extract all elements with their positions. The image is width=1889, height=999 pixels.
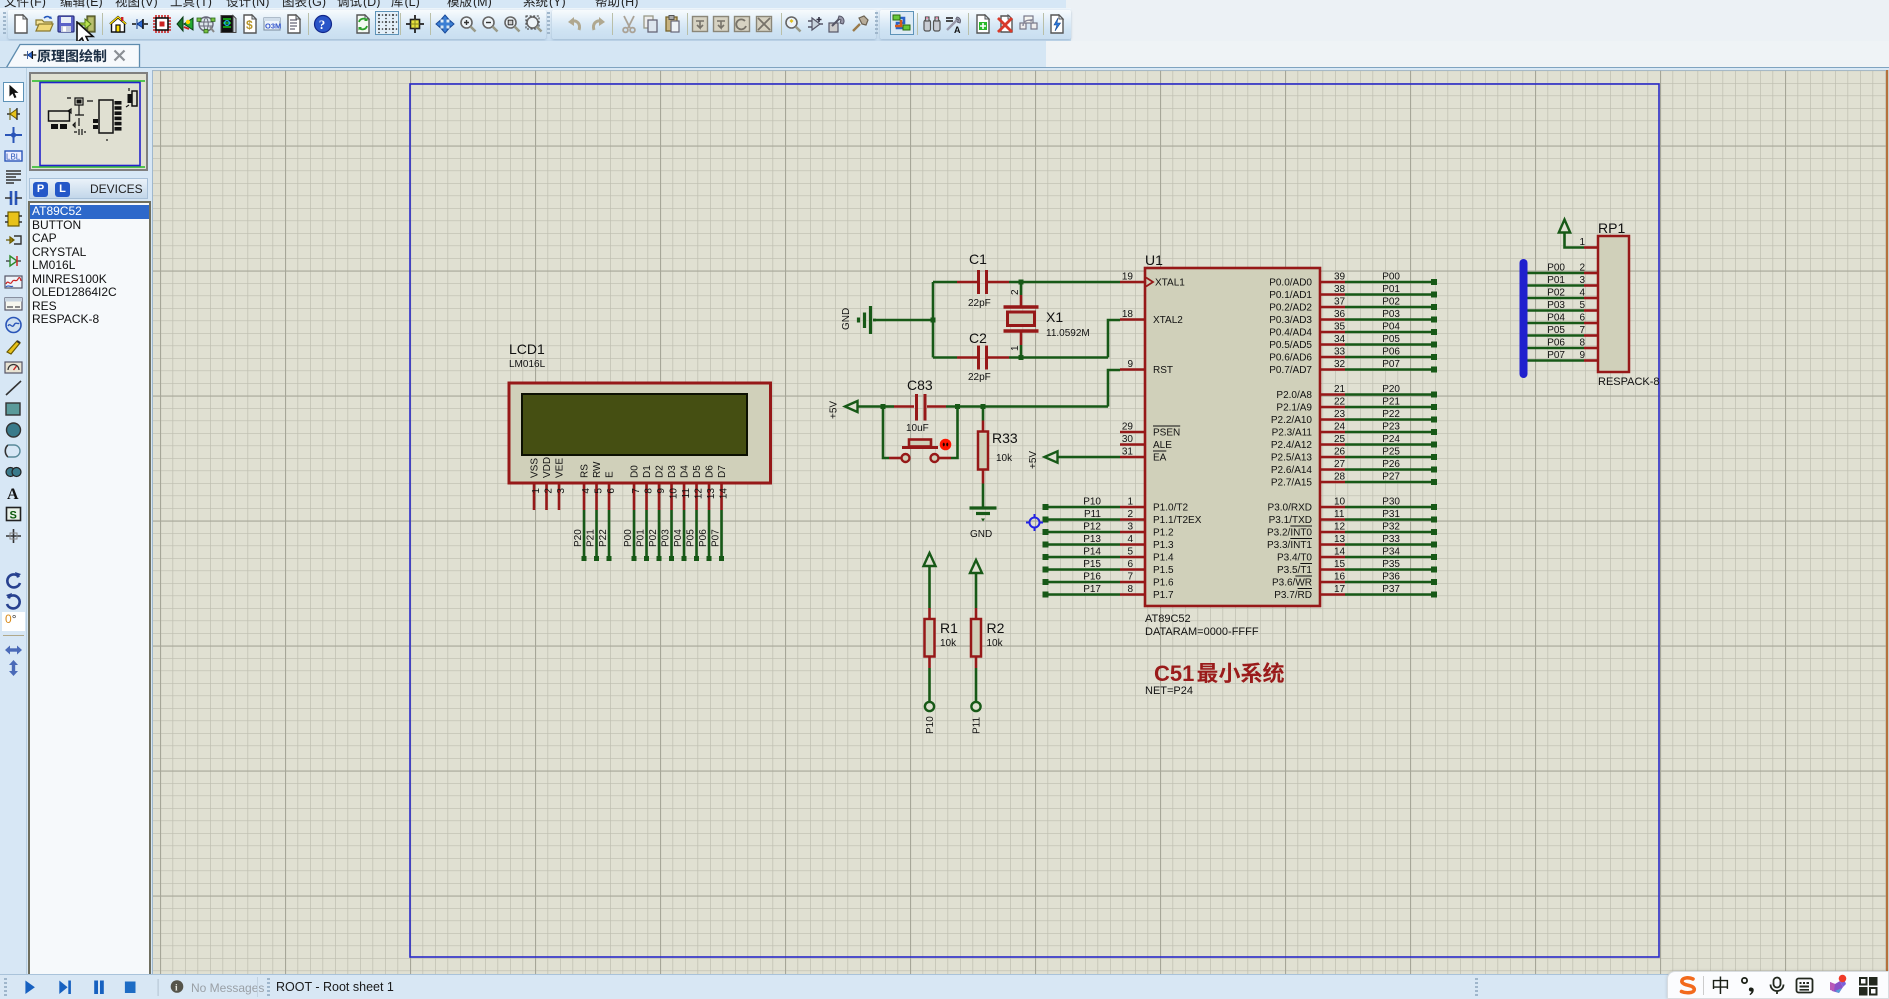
junction at (958,406.5) <box>955 404 960 409</box>
svg-text:22pF: 22pF <box>968 298 991 309</box>
svg-text:36: 36 <box>1334 309 1346 320</box>
svg-text:27: 27 <box>1334 459 1346 470</box>
svg-text:P0.2/AD2: P0.2/AD2 <box>1269 303 1312 314</box>
svg-text:P25: P25 <box>1382 447 1400 458</box>
svg-text:P05: P05 <box>686 529 697 547</box>
svg-text:P17: P17 <box>1083 584 1101 595</box>
svg-text:LBL: LBL <box>6 153 21 162</box>
svg-text:P12: P12 <box>1083 522 1101 533</box>
svg-text:LCD1: LCD1 <box>509 341 545 357</box>
svg-text:P01: P01 <box>1547 275 1565 286</box>
svg-text:P1.4: P1.4 <box>1153 553 1174 564</box>
svg-text:P2.0/A8: P2.0/A8 <box>1276 390 1312 401</box>
svg-text:5: 5 <box>594 488 605 494</box>
svg-text:P3.3/INT1: P3.3/INT1 <box>1267 540 1312 551</box>
svg-text:P2.7/A15: P2.7/A15 <box>1271 478 1313 489</box>
resistor pack RP1 labels <box>1598 220 1660 388</box>
capacitor C2 <box>933 346 1108 370</box>
svg-text:+5V: +5V <box>829 401 840 419</box>
svg-text:P06: P06 <box>1382 347 1400 358</box>
wire RST to U1 pin 9 <box>1108 370 1120 407</box>
svg-text:P00: P00 <box>623 529 634 547</box>
svg-text:(T): (T) <box>196 0 212 8</box>
svg-text:(F): (F) <box>30 0 46 8</box>
svg-text:2: 2 <box>1127 509 1133 520</box>
svg-text:22: 22 <box>1334 397 1346 408</box>
U1 right pin numbers <box>1334 272 1346 596</box>
svg-text:P0.7/AD7: P0.7/AD7 <box>1269 365 1312 376</box>
svg-text:P0.4/AD4: P0.4/AD4 <box>1269 328 1312 339</box>
svg-text:16: 16 <box>1334 572 1346 583</box>
svg-text:S: S <box>10 510 17 522</box>
svg-text:10: 10 <box>669 488 680 500</box>
svg-text:P02: P02 <box>1382 297 1400 308</box>
svg-text:P22: P22 <box>598 529 609 547</box>
svg-text:5: 5 <box>1127 547 1133 558</box>
svg-text:P0.5/AD5: P0.5/AD5 <box>1269 340 1312 351</box>
svg-text:?: ? <box>319 17 326 32</box>
terminal circle P10 <box>925 702 934 711</box>
svg-text:P3.1/TXD: P3.1/TXD <box>1269 515 1312 526</box>
svg-text:10: 10 <box>1334 497 1346 508</box>
svg-text:14: 14 <box>1334 547 1346 558</box>
svg-text:RW: RW <box>592 461 603 478</box>
svg-text:3: 3 <box>1127 522 1133 533</box>
svg-text:P20: P20 <box>1382 384 1400 395</box>
svg-text:9: 9 <box>656 488 667 494</box>
svg-text:P14: P14 <box>1083 547 1101 558</box>
svg-text:P01: P01 <box>636 529 647 547</box>
capacitor C1 <box>933 270 1120 294</box>
svg-text:P2.3/A11: P2.3/A11 <box>1272 428 1313 439</box>
svg-text:P3.7/RD: P3.7/RD <box>1274 590 1312 601</box>
svg-text:P01: P01 <box>1382 284 1400 295</box>
svg-text:32: 32 <box>1334 359 1346 370</box>
svg-text:26: 26 <box>1334 447 1346 458</box>
svg-text:P11: P11 <box>972 717 983 734</box>
svg-text:P37: P37 <box>1382 584 1400 595</box>
wire +5V to EA <box>1058 456 1120 459</box>
IC U1 AT89C52 body <box>1145 268 1320 606</box>
svg-text:C51: C51 <box>1154 661 1194 686</box>
sheet border <box>410 84 1659 957</box>
junction at (1021,357.5) <box>1019 355 1024 360</box>
P1 wire terminals <box>1043 504 1049 598</box>
svg-text:33: 33 <box>1334 347 1346 358</box>
svg-text:9: 9 <box>1127 359 1133 370</box>
RP1 wire net labels <box>1547 263 1565 362</box>
svg-text:P27: P27 <box>1382 472 1400 483</box>
svg-text:P00: P00 <box>1547 263 1565 274</box>
svg-text:(H): (H) <box>621 0 638 8</box>
svg-text:19: 19 <box>1122 272 1134 283</box>
svg-text:P1.3: P1.3 <box>1153 540 1174 551</box>
svg-text:P3.5/T1: P3.5/T1 <box>1277 565 1312 576</box>
svg-text:P02: P02 <box>1547 288 1565 299</box>
svg-text:EA: EA <box>1153 453 1167 464</box>
U1 XTAL1 clock chevron <box>1146 278 1153 287</box>
svg-text:P1.1/T2EX: P1.1/T2EX <box>1153 515 1202 526</box>
power terminal +5V (EA) <box>1028 451 1058 469</box>
title text <box>1145 661 1284 697</box>
U1 left pin names <box>1153 278 1202 602</box>
wire vertical branch C1-C2 left <box>932 282 935 358</box>
svg-text:4: 4 <box>1127 534 1133 545</box>
svg-text:P32: P32 <box>1382 522 1400 533</box>
ground terminal GND (below R33) <box>970 508 997 540</box>
svg-text:VSS: VSS <box>530 458 541 478</box>
svg-text:R33: R33 <box>992 430 1018 446</box>
resistor R33 <box>978 407 988 508</box>
U1 left pin numbers <box>1122 272 1134 596</box>
wire RP1 pin 1 <box>1565 233 1599 248</box>
svg-text:28: 28 <box>1334 472 1346 483</box>
U1 left pin stubs <box>1120 282 1145 595</box>
svg-text:R2: R2 <box>987 620 1005 636</box>
svg-text:12: 12 <box>1334 522 1346 533</box>
svg-text:1: 1 <box>1579 237 1585 248</box>
svg-text:D4: D4 <box>680 465 691 478</box>
svg-text:ALE: ALE <box>1153 440 1172 451</box>
svg-text:D6: D6 <box>705 465 716 478</box>
svg-text:P35: P35 <box>1382 559 1400 570</box>
U1 right pin names <box>1267 278 1312 602</box>
svg-text:P3.6/WR: P3.6/WR <box>1272 578 1312 589</box>
origin marker <box>1026 514 1043 531</box>
svg-text:P2.1/A9: P2.1/A9 <box>1276 403 1312 414</box>
power terminal +5V (R1) <box>924 553 936 566</box>
LCD1 pin stubs 1-14 <box>534 483 722 510</box>
svg-text:23: 23 <box>1334 409 1346 420</box>
svg-text:13: 13 <box>706 488 717 500</box>
svg-text:15: 15 <box>1334 559 1346 570</box>
svg-text:P07: P07 <box>1547 350 1565 361</box>
svg-text:(L): (L) <box>405 0 420 8</box>
resistor R33 labels <box>992 430 1018 464</box>
svg-text:22pF: 22pF <box>968 372 991 383</box>
junction at (1021,282) <box>1019 280 1024 285</box>
svg-text:25: 25 <box>1334 434 1346 445</box>
crystal X1 labels <box>1046 309 1090 339</box>
capacitor C2 labels <box>968 330 991 383</box>
LCD LCD1 (LM016L) body <box>509 383 771 483</box>
wires from LCD1 pins 4-14 <box>584 510 722 558</box>
RP1 pin numbers <box>1579 237 1585 361</box>
svg-text:P2.4/A12: P2.4/A12 <box>1271 440 1313 451</box>
svg-text:GND: GND <box>970 529 992 540</box>
svg-text:P05: P05 <box>1382 334 1400 345</box>
svg-text:P22: P22 <box>1382 409 1400 420</box>
ground terminal GND (crystal) <box>841 306 876 334</box>
svg-text:2: 2 <box>544 488 555 494</box>
svg-text:P10: P10 <box>1083 497 1101 508</box>
svg-text:P04: P04 <box>1382 322 1400 333</box>
svg-text:D7: D7 <box>717 465 728 478</box>
svg-text:P03: P03 <box>1382 309 1400 320</box>
svg-text:11.0592M: 11.0592M <box>1046 328 1090 339</box>
svg-text:P0.0/AD0: P0.0/AD0 <box>1269 278 1312 289</box>
junction at (883,406.5) <box>881 404 886 409</box>
svg-text:13: 13 <box>1334 534 1346 545</box>
svg-text:P0.6/AD6: P0.6/AD6 <box>1269 353 1312 364</box>
svg-text:A: A <box>954 25 961 34</box>
wire button left branch <box>883 407 889 459</box>
svg-text:E: E <box>605 471 616 478</box>
net label P10 <box>925 716 936 734</box>
svg-text:2: 2 <box>1010 289 1021 295</box>
svg-text:P20: P20 <box>573 529 584 547</box>
junction at (983,406.5) <box>981 404 986 409</box>
P1 wire net labels <box>1083 497 1101 596</box>
svg-text:31: 31 <box>1122 447 1134 458</box>
svg-text:(Y): (Y) <box>549 0 566 8</box>
svg-text:1: 1 <box>1010 345 1021 351</box>
svg-text:3: 3 <box>556 488 567 494</box>
svg-text:P1.7: P1.7 <box>1153 590 1174 601</box>
svg-text:C2: C2 <box>969 330 987 346</box>
R1 labels <box>940 620 958 649</box>
power terminal +5V (RP1) <box>1559 220 1570 233</box>
svg-text:29: 29 <box>1122 422 1134 433</box>
svg-text:11: 11 <box>681 488 692 499</box>
svg-text:C1: C1 <box>969 251 987 267</box>
right wire terminals <box>1431 279 1437 598</box>
svg-text:P0.3/AD3: P0.3/AD3 <box>1269 315 1312 326</box>
svg-text:P3.4/T0: P3.4/T0 <box>1277 553 1312 564</box>
LCD1 wire terminals <box>582 556 725 561</box>
svg-text:P06: P06 <box>698 529 709 547</box>
wires P10-P17 to U1 <box>1048 507 1120 595</box>
svg-text:P2.6/A14: P2.6/A14 <box>1271 465 1313 476</box>
svg-text:X1: X1 <box>1046 309 1063 325</box>
svg-text:VEE: VEE <box>555 458 566 478</box>
op-amp U1 reference label <box>1145 252 1163 268</box>
svg-text:18: 18 <box>1122 309 1134 320</box>
svg-text:P34: P34 <box>1382 547 1400 558</box>
svg-text:D5: D5 <box>692 465 703 478</box>
svg-text:XTAL2: XTAL2 <box>1153 315 1183 326</box>
terminal circle P11 <box>971 702 980 711</box>
net label P11 <box>972 717 983 734</box>
svg-text:D1: D1 <box>642 465 653 478</box>
svg-text:P21: P21 <box>1382 397 1400 408</box>
wire GND to C1/C2 branch <box>873 319 933 322</box>
svg-text:+5V: +5V <box>1028 451 1039 469</box>
svg-text:R1: R1 <box>940 620 958 636</box>
capacitor C83 labels <box>906 377 933 434</box>
power terminal +5V (reset) <box>829 401 858 419</box>
svg-text:P0.1/AD1: P0.1/AD1 <box>1269 290 1312 301</box>
X1 pin numbers <box>1010 289 1021 351</box>
svg-text:P33: P33 <box>1382 534 1400 545</box>
svg-text:D0: D0 <box>630 465 641 478</box>
svg-text:21: 21 <box>1334 384 1346 395</box>
U1 part labels <box>1145 613 1259 638</box>
svg-text:P15: P15 <box>1083 559 1101 570</box>
svg-text:P02: P02 <box>648 529 659 547</box>
svg-text:D3: D3 <box>667 465 678 478</box>
svg-text:P07: P07 <box>711 529 722 547</box>
svg-text:P13: P13 <box>1083 534 1101 545</box>
svg-text:P11: P11 <box>1084 509 1101 520</box>
svg-text:6: 6 <box>606 488 617 494</box>
svg-text:P1.0/T2: P1.0/T2 <box>1153 503 1188 514</box>
svg-text:(D): (D) <box>363 0 380 8</box>
svg-text:1: 1 <box>1127 497 1133 508</box>
svg-text:P30: P30 <box>1382 497 1400 508</box>
svg-text:P31: P31 <box>1382 509 1400 520</box>
svg-text:P3.2/INT0: P3.2/INT0 <box>1267 528 1312 539</box>
svg-text:P10: P10 <box>925 716 936 734</box>
LCD1 pin names <box>530 457 729 478</box>
svg-text:(E): (E) <box>86 0 103 8</box>
svg-text:P1.6: P1.6 <box>1153 578 1174 589</box>
svg-text:7: 7 <box>631 488 642 494</box>
svg-text:P06: P06 <box>1547 338 1565 349</box>
svg-text:8: 8 <box>644 488 655 494</box>
svg-text:P05: P05 <box>1547 325 1565 336</box>
resistor R1 <box>925 566 935 701</box>
svg-text:17: 17 <box>1334 584 1346 595</box>
svg-text:DATARAM=0000-FFFF: DATARAM=0000-FFFF <box>1145 626 1259 638</box>
svg-text:D2: D2 <box>655 465 666 478</box>
wires U1 right ports <box>1345 282 1431 595</box>
svg-text:P23: P23 <box>1382 422 1400 433</box>
svg-text:10k: 10k <box>940 638 957 649</box>
svg-text:P16: P16 <box>1083 572 1101 583</box>
svg-text:P21: P21 <box>586 529 597 547</box>
svg-text:P1.5: P1.5 <box>1153 565 1174 576</box>
svg-text:34: 34 <box>1334 334 1346 345</box>
right wire net labels <box>1382 272 1400 596</box>
svg-text:RESPACK-8: RESPACK-8 <box>1598 376 1660 388</box>
svg-text:PSEN: PSEN <box>1153 428 1180 439</box>
svg-text:P04: P04 <box>1547 313 1565 324</box>
svg-text:(M): (M) <box>473 0 492 8</box>
svg-text:7: 7 <box>1127 572 1133 583</box>
svg-text:O3M: O3M <box>265 22 281 31</box>
svg-text:35: 35 <box>1334 322 1346 333</box>
LCD1 pin numbers 1-14 <box>531 488 730 500</box>
svg-text:RS: RS <box>580 464 591 478</box>
svg-text:P07: P07 <box>1382 359 1400 370</box>
R2 labels <box>987 620 1005 649</box>
crystal X1 <box>1004 282 1039 358</box>
junction at (933,320) <box>931 318 936 323</box>
svg-text:30: 30 <box>1122 434 1134 445</box>
RP1 bus wires P00-P07 <box>1524 273 1598 361</box>
svg-text:AT89C52: AT89C52 <box>1145 613 1191 625</box>
svg-text:LM016L: LM016L <box>509 359 546 370</box>
svg-text:(G): (G) <box>308 0 326 8</box>
svg-text:24: 24 <box>1334 422 1346 433</box>
wire button right branch <box>951 407 958 459</box>
svg-text:XTAL1: XTAL1 <box>1155 278 1185 289</box>
power terminal +5V (R2) <box>970 560 982 573</box>
capacitor C1 labels <box>968 251 991 309</box>
U1 right pin stubs <box>1320 282 1345 595</box>
svg-text:11: 11 <box>1334 509 1345 520</box>
svg-text:P03: P03 <box>1547 300 1565 311</box>
svg-text:8: 8 <box>1127 584 1133 595</box>
svg-text:VDD: VDD <box>542 457 553 478</box>
svg-text:6: 6 <box>1127 559 1133 570</box>
svg-text:P1.2: P1.2 <box>1153 528 1174 539</box>
resistor pack RP1 body <box>1598 236 1629 372</box>
svg-text:P24: P24 <box>1382 434 1400 445</box>
svg-text:1: 1 <box>531 488 542 494</box>
svg-text:GND: GND <box>841 308 852 330</box>
svg-text:U1: U1 <box>1145 252 1163 268</box>
svg-text:P00: P00 <box>1382 272 1400 283</box>
svg-text:i: i <box>175 983 178 993</box>
svg-text:38: 38 <box>1334 284 1346 295</box>
svg-text:A: A <box>7 486 19 503</box>
svg-text:P04: P04 <box>673 529 684 547</box>
svg-text:(N): (N) <box>252 0 269 8</box>
svg-text:$: $ <box>246 18 253 32</box>
push button (reset) <box>889 440 951 463</box>
LCD1 wire net labels <box>573 529 722 547</box>
svg-text:P3.0/RXD: P3.0/RXD <box>1268 503 1312 514</box>
svg-text:P2.5/A13: P2.5/A13 <box>1271 453 1313 464</box>
svg-text:P2.2/A10: P2.2/A10 <box>1271 415 1313 426</box>
svg-text:C83: C83 <box>907 377 933 393</box>
bus (blue) <box>1520 263 1528 374</box>
svg-text:(V): (V) <box>141 0 158 8</box>
capacitor C83 + reset wire <box>858 394 1109 421</box>
svg-text:4: 4 <box>581 488 592 494</box>
svg-text:37: 37 <box>1334 297 1346 308</box>
svg-text:10k: 10k <box>996 453 1013 464</box>
svg-text:10k: 10k <box>987 638 1004 649</box>
svg-text:P36: P36 <box>1382 572 1400 583</box>
wire XTAL2 to U1 pin 18 <box>1108 320 1120 358</box>
svg-text:P26: P26 <box>1382 459 1400 470</box>
button actuator indicator <box>941 440 950 449</box>
svg-text:NET=P24: NET=P24 <box>1145 685 1193 697</box>
svg-text:P03: P03 <box>661 529 672 547</box>
svg-text:12: 12 <box>694 488 705 500</box>
svg-text:10uF: 10uF <box>906 423 929 434</box>
svg-text:39: 39 <box>1334 272 1346 283</box>
resistor R2 <box>971 573 981 701</box>
LCD LCD1 labels <box>509 341 546 370</box>
svg-text:RST: RST <box>1153 365 1173 376</box>
svg-text:14: 14 <box>719 488 730 500</box>
svg-text:RP1: RP1 <box>1598 220 1625 236</box>
